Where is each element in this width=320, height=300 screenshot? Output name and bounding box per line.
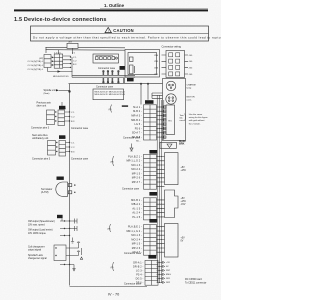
connector block B5 CN7 [145,260,158,285]
header thin rule [100,7,208,9]
pins between W2 and W3 [103,78,124,83]
termination box T1 [157,153,179,187]
connector block B2 CN3 [144,154,157,189]
tag CN1A top [120,66,125,70]
drive unit top view (box B) [125,50,160,78]
wire: top communication bus [46,43,163,286]
left unit top view (box A) [93,54,119,63]
left wire labels [28,57,78,78]
tag CN6 [149,219,157,223]
TE side label + brace [180,115,185,122]
connector block B1 CN2 [144,105,157,140]
W3 main horizontal bus [69,83,163,85]
tag CN1B top [127,78,134,81]
vertical main bus [69,84,71,286]
connector CN3: analog output / changeover signals [57,215,63,218]
header thick rule [14,9,208,11]
wire ladder verticals [157,95,164,283]
top double bus wires [46,46,126,49]
junction drops to CN2 [140,84,142,105]
legend box [93,89,124,100]
drive unit front view U1 [160,79,186,149]
connector wiring pin grid [162,51,189,78]
W2 double wire [72,74,135,76]
terminator A-TM [57,177,64,180]
tag CN2 [145,100,154,104]
termination box T3 [157,224,179,258]
first row dark lead [122,105,128,107]
rungs to unit between bus and unit edge [152,93,163,98]
B5 right wires with symbols and labels [158,261,165,283]
tag CN3 [149,150,157,154]
small box on top wires [67,43,78,48]
ground symbol [130,144,133,152]
tag CN7 [148,255,156,259]
rungs B1 to TE1 [157,106,167,138]
caution box [31,26,246,41]
bottom bus line [70,286,148,288]
connector pair: battery option connectors [44,48,73,77]
ladder junction dots [157,106,165,282]
termination box T2 (notched) [157,190,179,218]
pins between box A and W2 [103,71,119,76]
tag CN9 [149,192,157,196]
connector block B3 CN9 [144,198,157,220]
connector block B4 CN6 [144,225,157,256]
brace group B1 [110,105,113,113]
